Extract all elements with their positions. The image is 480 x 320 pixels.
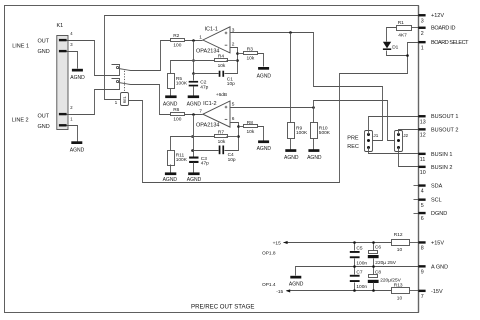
bus pin SCL [414,198,442,209]
ground AGND under K1 pin1 [70,141,85,153]
ground AGND power rail [289,276,304,288]
svg-text:500K: 500K [319,130,331,136]
svg-text:-15V: -15V [431,289,443,295]
wire switch B pole to R6 [131,85,171,115]
K1 pin 4 [59,31,73,42]
svg-text:OP1.4: OP1.4 [262,282,276,288]
svg-text:+12V: +12V [431,13,444,19]
junction C5 +15V [353,241,356,244]
bus pin A GND [418,264,448,275]
label -15 arrow [276,289,290,295]
svg-text:100K: 100K [176,80,188,86]
svg-text:OUT: OUT [38,114,50,120]
junction pin2 / R3 [236,52,239,55]
svg-text:100: 100 [173,117,181,123]
resistor R7 [193,130,239,145]
capacitor C6 (electrolytic) [368,243,397,267]
junction R4 right [236,59,239,62]
svg-text:AGND: AGND [284,155,299,161]
wire R2 to op-amp output node [185,40,203,42]
wire J2 top to BUSOUT 2 [399,130,419,135]
svg-text:BUSIN 1: BUSIN 1 [431,152,452,158]
op-amp IC1-2 [196,101,235,129]
svg-text:R2: R2 [173,33,179,39]
diode D1 [383,42,408,56]
svg-text:12: 12 [420,133,426,139]
jumper J1 [365,131,379,152]
junction pin6 / R8 [237,125,240,128]
svg-text:AGND: AGND [187,101,202,107]
svg-text:+6dB: +6dB [216,92,227,98]
ground AGND under R8 [257,140,272,152]
bus connector spine [418,6,420,313]
capacitor C1 [194,71,236,87]
svg-text:9: 9 [421,270,424,276]
relay actuator dashed link [124,71,126,92]
op-amp IC1-1 [196,27,235,55]
junction pin5 node [312,106,315,109]
junction R7 right [237,135,240,138]
svg-text:47p: 47p [201,160,209,166]
label +15 arrow [273,241,288,247]
svg-text:10: 10 [397,295,403,301]
svg-text:+15: +15 [273,241,281,247]
junction output node IC1-2 [192,113,195,116]
svg-text:7: 7 [199,108,202,114]
svg-text:AGND: AGND [163,101,178,107]
junction C6 +15V [372,241,375,244]
svg-text:J2: J2 [403,133,408,138]
junction C6/C8 A GND [372,265,375,268]
svg-text:OUT: OUT [38,38,50,44]
ground AGND under R10 [307,149,322,161]
wire J1 top to BUSOUT 1 [369,117,419,135]
svg-text:47p: 47p [200,85,208,91]
resistor R13 [392,283,419,302]
svg-text:AGND: AGND [70,75,85,81]
junction C1/C2 node [192,72,195,75]
svg-text:2: 2 [421,31,424,37]
ground AGND under K1 pin3 [70,69,85,81]
svg-text:5: 5 [421,203,424,209]
bus pin BUSOUT 2 [418,127,458,138]
svg-text:BOARD SELECT: BOARD SELECT [431,40,469,46]
resistor R8 [239,120,264,141]
ground AGND under R9 [284,149,299,161]
bus pin BOARD ID [418,26,455,37]
svg-text:220µ 25V: 220µ 25V [375,260,396,266]
resistor R11 [168,151,188,173]
ground AGND under R5 [163,95,178,107]
wire pin5 node up and to J2 middle [314,101,399,141]
relay contact S1 (switch A) [116,66,130,70]
wire IC1-1 pin2 to feedback column [225,48,238,74]
svg-text:IC1-1: IC1-1 [205,27,218,33]
K1 pin 1 [59,116,73,126]
wire A GND rail [296,267,419,276]
capacitor C5 [350,243,368,267]
svg-text:4: 4 [421,189,424,195]
svg-text:100n: 100n [356,284,367,290]
svg-text:RE1: RE1 [123,96,127,103]
svg-text:J1: J1 [373,133,378,138]
svg-text:AGND: AGND [70,147,85,153]
svg-text:REC: REC [347,144,359,150]
svg-text:-15: -15 [276,289,283,295]
svg-text:13: 13 [420,119,426,125]
relay contact S2 (switch B) [116,80,130,84]
svg-text:IC1-2: IC1-2 [203,101,216,107]
svg-text:10: 10 [397,247,403,253]
K1 pin 3 [59,42,73,52]
svg-text:C7: C7 [356,269,362,275]
wire switch A pole to R2 [131,41,171,71]
svg-text:1: 1 [115,100,118,106]
svg-text:8: 8 [421,246,424,252]
svg-text:10k: 10k [218,63,226,69]
svg-text:GND: GND [38,124,50,130]
svg-text:D1: D1 [392,45,398,51]
svg-text:220µ/25V: 220µ/25V [380,277,401,283]
bus pin DGND [414,211,448,222]
capacitor C3 [189,156,209,173]
svg-text:R8: R8 [247,120,253,126]
bus pin BUSOUT 1 [418,114,458,125]
svg-text:K1: K1 [57,23,64,29]
wire R6 to op-amp IC1-2 output node [185,114,203,116]
capacitor C8 (electrolytic) [368,267,402,291]
wire output node down feedback column [193,41,195,81]
resistor R10 [311,123,331,150]
resistor R9 [288,123,309,150]
jumper J2 [395,131,409,152]
wire K1 pin1 to AGND [67,126,78,142]
resistor R5 [168,74,188,96]
svg-text:DGND: DGND [431,211,447,217]
svg-text:R4: R4 [218,54,224,60]
junction C5/C7 A GND [353,265,356,268]
svg-text:1: 1 [199,34,202,40]
svg-text:AGND: AGND [257,146,272,152]
capacitor C2 [189,74,209,96]
svg-text:OPA2134: OPA2134 [196,48,219,54]
svg-text:OP1.8: OP1.8 [262,250,276,256]
wire IC1-2 output node down feedback column [193,115,195,157]
junction output node IC1-1 [192,39,195,42]
bus pin +12V [418,13,444,24]
wire +12V rail from top to relay coil [105,16,419,100]
svg-text:100: 100 [173,43,181,49]
resistor R4 [194,54,238,69]
junction R4 left column [192,59,195,62]
ground AGND under C3 [187,172,202,183]
wire J2 bottom to BUSIN 2 [399,148,419,167]
resistor R3 [238,46,264,66]
svg-text:4K7: 4K7 [398,33,407,39]
junction R7 left column [191,135,194,138]
svg-text:R6: R6 [173,107,179,113]
wire relay coil to board-select rail [129,43,419,183]
svg-text:OPA2134: OPA2134 [196,123,219,129]
svg-text:10p: 10p [227,81,235,87]
svg-text:R1: R1 [398,20,404,26]
bus pin -15V [418,289,443,300]
svg-text:R7: R7 [218,130,224,136]
svg-text:SDA: SDA [431,184,443,190]
K1 pin 2 [59,105,73,115]
svg-text:GND: GND [38,49,50,55]
svg-text:PRE/REC OUT STAGE: PRE/REC OUT STAGE [191,304,254,311]
bus pin BUSIN 1 [418,152,452,163]
svg-text:6: 6 [232,116,235,122]
svg-text:10: 10 [420,170,426,176]
resistor R1 [387,20,419,41]
bus pin +15V [418,240,444,251]
svg-text:100n: 100n [356,260,367,266]
svg-text:LINE 2: LINE 2 [12,117,29,123]
svg-text:3: 3 [421,18,424,24]
bus pin SDA [414,184,443,195]
svg-text:AGND: AGND [187,177,202,183]
connector K1 body [57,23,69,130]
svg-text:1: 1 [421,45,424,51]
wire K1 pin2 to switch B contact [67,79,120,115]
svg-text:11: 11 [420,157,426,163]
wire IC1-2 pin5 to R10/J2 node [231,107,314,109]
junction D1 cathode / board select [406,54,409,57]
svg-text:AGND: AGND [163,177,178,183]
wire -15V rail [287,290,392,292]
svg-text:C5: C5 [356,246,362,252]
svg-text:R13: R13 [394,283,403,289]
wire R5 branch [171,61,194,74]
svg-text:C6: C6 [375,245,381,251]
svg-text:10k: 10k [218,139,226,145]
wire +15V rail [284,242,392,244]
svg-text:2: 2 [232,42,235,48]
ground AGND under R11 [163,172,178,183]
bus pin BUSIN 2 [418,165,452,176]
wire IC1-1 pin3 to bus area [231,33,383,141]
junction C3/C4 node [191,149,194,152]
svg-text:R12: R12 [394,232,403,238]
svg-text:BUSOUT 1: BUSOUT 1 [431,114,458,120]
svg-text:10k: 10k [247,56,255,62]
junction C8 -15V [372,289,375,292]
resistor R12 [392,232,419,253]
svg-text:AGND: AGND [257,73,272,79]
svg-text:BUSIN 2: BUSIN 2 [431,165,452,171]
svg-text:BOARD ID: BOARD ID [431,26,456,32]
svg-text:SCL: SCL [431,198,442,204]
junction pin3 / R9 [289,31,292,34]
svg-text:PRE: PRE [347,136,359,142]
ground AGND under R3 [257,67,272,79]
svg-text:A GND: A GND [431,264,448,270]
resistor R2 [171,33,185,48]
svg-text:C8: C8 [375,269,381,275]
ground AGND under C2 [187,95,202,107]
bus pin BOARD SELECT [418,40,469,51]
svg-text:AGND: AGND [307,155,322,161]
svg-text:AGND: AGND [289,282,304,288]
svg-text:LINE 1: LINE 1 [12,43,29,49]
capacitor C7 [350,267,368,291]
svg-text:10p: 10p [228,157,236,163]
svg-text:100K: 100K [176,157,188,163]
capacitor C4 [193,146,236,163]
resistor R6 [171,107,185,123]
wire R11 branch [171,137,193,151]
svg-text:R3: R3 [247,46,253,52]
svg-text:BUSOUT 2: BUSOUT 2 [431,127,458,133]
svg-text:10k: 10k [247,129,255,135]
svg-text:7: 7 [421,294,424,300]
wire pin3 node down to R9 [290,33,292,123]
junction C7 -15V [353,289,356,292]
svg-text:+15V: +15V [431,240,444,246]
svg-text:6: 6 [421,216,424,222]
wire J1 bottom to BUSIN 1 [369,148,419,154]
wire K1 pin3 to AGND [67,52,78,69]
relay coil RE1 [115,93,129,107]
svg-text:5: 5 [232,102,235,108]
svg-text:100K: 100K [296,130,308,136]
wire IC1-2 pin6 to feedback column [225,123,239,151]
wire K1 pin4 to switch A contact [67,41,120,76]
